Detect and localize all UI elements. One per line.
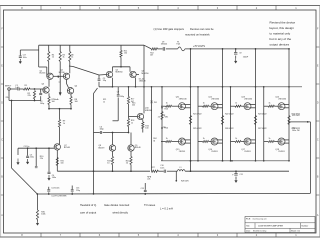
svg-text:1k: 1k <box>63 56 65 58</box>
svg-text:Date:: Date: <box>246 230 251 233</box>
svg-text:8/04/00 10:45p: 8/04/00 10:45p <box>253 231 267 233</box>
svg-text:220p: 220p <box>76 190 80 192</box>
svg-text:2SK1530: 2SK1530 <box>278 98 286 100</box>
svg-text:2W: 2W <box>163 127 166 129</box>
svg-text:R29 10R: R29 10R <box>292 115 300 117</box>
svg-text:1k: 1k <box>269 138 271 140</box>
svg-text:10: 10 <box>107 163 109 165</box>
svg-text:4k7: 4k7 <box>150 55 153 57</box>
svg-text:1k: 1k <box>203 138 205 140</box>
svg-text:BC546: BC546 <box>64 147 70 149</box>
svg-text:L1: L1 <box>180 167 182 169</box>
svg-text:2SJ201: 2SJ201 <box>278 151 284 153</box>
svg-text:care of output: care of output <box>80 211 96 215</box>
svg-text:R28 10R: R28 10R <box>181 181 189 183</box>
svg-text:BD140: BD140 <box>135 147 141 149</box>
svg-text:1k: 1k <box>52 56 54 58</box>
svg-text:2SK1530: 2SK1530 <box>179 98 187 100</box>
svg-text:2k: 2k <box>158 117 160 119</box>
svg-text:but in any of the: but in any of the <box>270 37 292 41</box>
svg-text:100p: 100p <box>40 103 44 105</box>
svg-text:C13 100n: C13 100n <box>51 187 59 189</box>
svg-text:1k: 1k <box>63 123 65 125</box>
svg-text:Title: Title <box>246 224 250 227</box>
svg-text:MJE340: MJE340 <box>145 110 152 112</box>
svg-text:100n: 100n <box>160 167 164 169</box>
svg-text:to material only: to material only <box>270 31 291 35</box>
svg-text:1k: 1k <box>235 103 237 105</box>
svg-text:C9: C9 <box>239 53 241 55</box>
svg-text:R26 0R22: R26 0R22 <box>225 128 234 130</box>
svg-text:100nF: 100nF <box>243 56 249 58</box>
svg-text:C: C <box>317 139 319 142</box>
svg-text:150: 150 <box>124 53 127 55</box>
svg-text:Gate diodes mounted: Gate diodes mounted <box>104 203 130 207</box>
svg-text:D: D <box>317 102 319 105</box>
svg-text:C3 10u: C3 10u <box>24 146 30 148</box>
svg-text:D: D <box>1 102 3 105</box>
svg-text:R23 0R22: R23 0R22 <box>258 113 267 115</box>
svg-text:4k7: 4k7 <box>131 101 134 103</box>
svg-text:1k: 1k <box>103 101 105 103</box>
svg-text:TO cases: TO cases <box>144 203 156 207</box>
svg-text:MJE350: MJE350 <box>116 72 123 74</box>
svg-text:1N5404: 1N5404 <box>161 44 167 46</box>
svg-text:mounted on heatsink: mounted on heatsink <box>185 33 210 37</box>
svg-text:220u: 220u <box>30 157 34 159</box>
svg-text:INPUT: INPUT <box>5 85 12 87</box>
svg-text:C15: C15 <box>141 188 144 190</box>
svg-text:1k: 1k <box>269 103 271 105</box>
svg-text:2SJ201: 2SJ201 <box>211 151 217 153</box>
svg-text:wired directly: wired directly <box>113 211 129 215</box>
svg-text:BD139: BD139 <box>99 147 105 149</box>
svg-text:1k: 1k <box>166 103 168 105</box>
svg-text:mosfet-amp.sch: mosfet-amp.sch <box>253 218 267 221</box>
svg-text:1k: 1k <box>203 103 205 105</box>
svg-text:R27: R27 <box>152 167 155 169</box>
svg-text:100k: 100k <box>41 214 45 216</box>
svg-text:W1: W1 <box>154 102 157 104</box>
svg-text:+70 VOLTS: +70 VOLTS <box>193 46 205 48</box>
svg-text:layout, this design: layout, this design <box>270 26 295 30</box>
svg-text:C7: C7 <box>117 91 119 93</box>
svg-text:100: 100 <box>61 162 64 164</box>
svg-text:BC556: BC556 <box>59 72 65 74</box>
svg-text:Sheet: 1/1: Sheet: 1/1 <box>291 230 301 233</box>
svg-text:100: 100 <box>52 101 55 103</box>
svg-text:R27 0R22: R27 0R22 <box>258 128 267 130</box>
svg-text:Number: Number <box>302 224 309 227</box>
svg-text:FILE:: FILE: <box>246 219 251 221</box>
svg-text:22k: 22k <box>40 158 43 160</box>
svg-text:100n: 100n <box>52 177 56 179</box>
svg-text:BC556: BC556 <box>40 73 46 75</box>
svg-text:2SJ201: 2SJ201 <box>244 151 250 153</box>
svg-text:output devices: output devices <box>270 42 290 46</box>
svg-text:C: C <box>1 139 3 142</box>
svg-text:100W MOSFET AMPLIFIER: 100W MOSFET AMPLIFIER <box>258 224 284 227</box>
svg-text:100p: 100p <box>120 96 124 98</box>
svg-text:100n 1W: 100n 1W <box>292 130 300 132</box>
svg-text:100: 100 <box>75 101 78 103</box>
svg-text:L = 0.1 mH: L = 0.1 mH <box>160 206 173 210</box>
svg-text:1k: 1k <box>71 56 73 58</box>
svg-text:1N4148: 1N4148 <box>139 80 146 82</box>
svg-text:100p: 100p <box>100 129 104 131</box>
svg-text:R13: R13 <box>165 109 168 111</box>
svg-text:22k: 22k <box>28 95 31 97</box>
svg-text:R21 0R22: R21 0R22 <box>193 113 202 115</box>
svg-text:C14 POLYESTER: C14 POLYESTER <box>51 196 67 198</box>
svg-text:Revised the device: Revised the device <box>270 20 296 24</box>
svg-text:22k: 22k <box>147 178 150 180</box>
svg-text:R25 0R22: R25 0R22 <box>193 128 202 130</box>
svg-text:R22 0R22: R22 0R22 <box>225 113 234 115</box>
svg-text:10: 10 <box>126 163 128 165</box>
svg-text:Heatsink of Q.: Heatsink of Q. <box>80 203 97 207</box>
svg-text:100: 100 <box>145 128 148 130</box>
svg-text:1k: 1k <box>235 138 237 140</box>
svg-text:22k: 22k <box>6 97 9 99</box>
svg-text:1k: 1k <box>131 122 133 124</box>
svg-text:C11: C11 <box>240 174 243 176</box>
svg-text:Devices can now be: Devices can now be <box>190 27 214 31</box>
svg-text:1k: 1k <box>166 138 168 140</box>
svg-text:x2: x2 <box>59 82 61 84</box>
svg-text:56: 56 <box>153 141 155 143</box>
svg-text:2SK1530: 2SK1530 <box>244 98 252 100</box>
svg-text:33p: 33p <box>103 80 106 82</box>
svg-text:100n: 100n <box>23 57 27 59</box>
svg-text:2SJ201: 2SJ201 <box>179 151 185 153</box>
svg-text:2SK1530: 2SK1530 <box>211 98 219 100</box>
svg-text:(1) Use 10R gate stoppers: (1) Use 10R gate stoppers <box>154 27 185 31</box>
svg-text:MJE350: MJE350 <box>142 73 149 75</box>
svg-text:2k2: 2k2 <box>132 104 135 106</box>
